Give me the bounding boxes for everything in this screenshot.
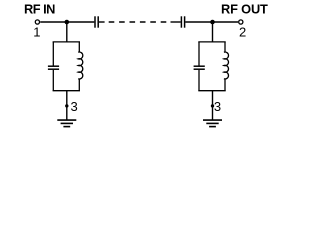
wire C2 to terminal 2 [185, 21, 238, 23]
wire C1 to dashed section [99, 21, 105, 23]
capacitor C2 (series, left plate) [180, 16, 182, 27]
ground (left) [57, 120, 76, 127]
wire dashed section to C2 [171, 21, 181, 23]
ground (right) [203, 120, 222, 127]
inductor L1 coil [78, 52, 83, 79]
wire tank 2 to ground [212, 91, 214, 120]
svg-text:2: 2 [239, 25, 246, 40]
junction node B (output shunt) [210, 20, 215, 25]
tank 2 bottom wire [198, 90, 225, 92]
wire terminal1 to series cap C1 [40, 21, 94, 23]
svg-text:3: 3 [214, 99, 221, 114]
wire dashed (continuation of ladder) [109, 21, 167, 23]
terminal 2 (RF OUT port) [239, 20, 243, 24]
capacitor C3 (shunt) top lead [52, 42, 54, 66]
wire tank 1 to ground [66, 91, 68, 120]
tank 1 bottom wire [53, 90, 80, 92]
capacitor C1 (series, left plate) [94, 16, 96, 27]
svg-text:3: 3 [71, 99, 78, 114]
svg-text:RF IN: RF IN [24, 2, 55, 17]
capacitor C3 bottom lead [52, 70, 54, 91]
capacitor C4 bottom plate [194, 68, 205, 70]
svg-text:1: 1 [33, 25, 40, 40]
capacitor C4 top plate [194, 65, 205, 67]
pin 3 dot (left) [65, 104, 68, 107]
pin 3 dot (right) [211, 104, 214, 107]
terminal 1 (RF IN port) [35, 20, 39, 24]
junction node A (input shunt) [65, 20, 70, 25]
inductor L2 top lead [224, 42, 226, 52]
capacitor C4 bottom lead [198, 70, 200, 91]
inductor L1 bottom lead [78, 79, 80, 91]
capacitor C1 (series, right plate) [97, 16, 99, 27]
wire node B down to tank 2 [212, 22, 214, 42]
capacitor C3 bottom plate [48, 68, 59, 70]
inductor L2 coil [224, 52, 229, 79]
inductor L2 bottom lead [224, 79, 226, 91]
tank 1 top wire [53, 41, 80, 43]
inductor L1 top lead [78, 42, 80, 52]
capacitor C2 (series, right plate) [184, 16, 186, 27]
svg-text:RF OUT: RF OUT [221, 2, 268, 17]
capacitor C4 (shunt) top lead [198, 42, 200, 66]
capacitor C3 top plate [48, 65, 59, 67]
tank 2 top wire [198, 41, 225, 43]
wire node A down to tank 1 [66, 22, 68, 42]
